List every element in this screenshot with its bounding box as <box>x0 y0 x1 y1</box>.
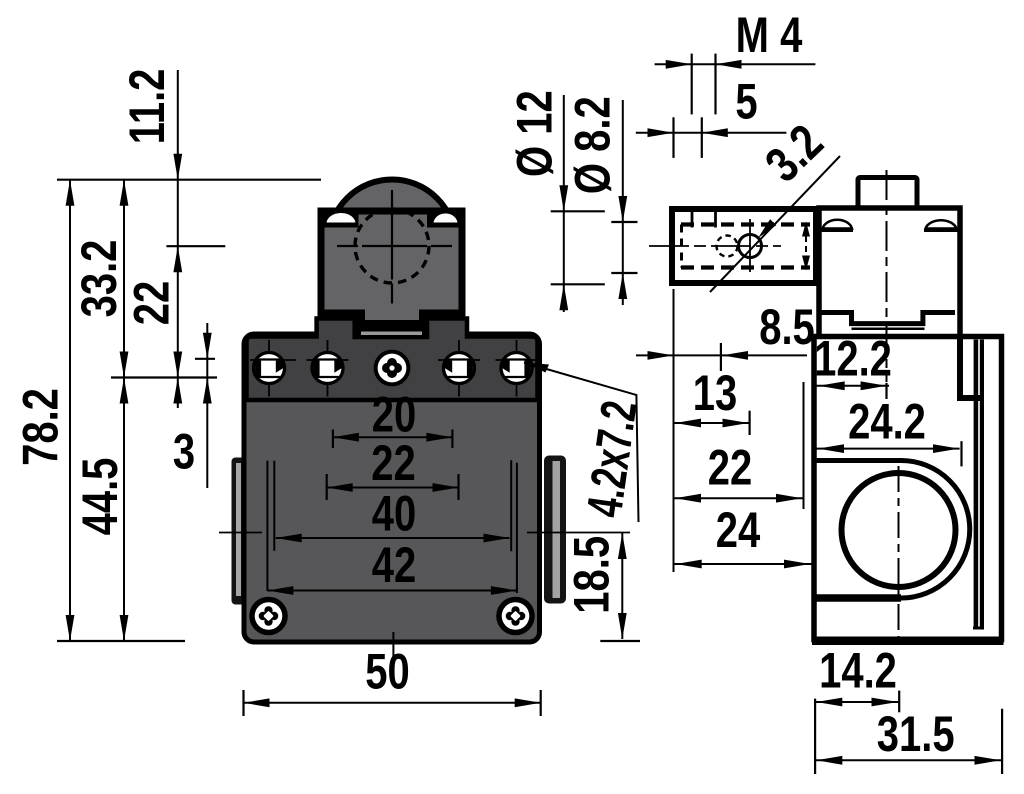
svg-text:50: 50 <box>365 643 409 699</box>
arm hidden hole dashed top <box>681 222 810 226</box>
roller centerline <box>898 466 900 648</box>
svg-text:42: 42 <box>372 537 416 593</box>
arm hidden hole dashed bottom <box>681 265 810 269</box>
svg-text:33.2: 33.2 <box>71 240 127 318</box>
dim 11.2/22 line <box>177 70 179 408</box>
extension tick bottom left <box>57 640 185 642</box>
svg-text:14.2: 14.2 <box>819 642 897 698</box>
lower body <box>814 337 1002 640</box>
side clip arc left <box>823 220 852 229</box>
head corner black insert right <box>427 209 466 228</box>
extension tick plunger center <box>166 245 225 247</box>
head bottom step <box>819 313 956 324</box>
terminal screw T1 <box>250 340 296 397</box>
inner dia 8.2 arrows <box>805 226 807 266</box>
head centerline horizontal <box>337 245 452 247</box>
plunger dashed circle <box>355 209 429 283</box>
svg-text:44.5: 44.5 <box>72 458 128 536</box>
upper body right edge extension <box>960 337 983 399</box>
dim 3 line <box>206 323 208 488</box>
lever arm <box>672 209 816 283</box>
bottom center tick <box>392 632 394 660</box>
hole crosshair horizontal <box>649 245 781 247</box>
lower body bottom thick edge <box>812 637 1004 646</box>
svg-text:Ø 8.2: Ø 8.2 <box>564 96 620 194</box>
roller housing arc <box>901 461 970 599</box>
bottom-right screw <box>496 597 535 636</box>
terminal screw T5 <box>496 340 538 397</box>
svg-text:78.2: 78.2 <box>12 388 68 466</box>
dim dia 12 <box>563 95 565 312</box>
upper body centerline <box>886 170 888 382</box>
side clip arc right <box>926 220 957 228</box>
svg-text:3: 3 <box>173 423 195 479</box>
terminal screw T2 <box>307 340 349 397</box>
M4 hole marks on arm top <box>691 211 694 228</box>
arm hidden hole dashed left <box>680 225 683 268</box>
roller circle <box>842 473 956 587</box>
svg-text:31.5: 31.5 <box>877 706 955 762</box>
white clip arc right <box>433 213 459 224</box>
right centerline <box>527 532 630 534</box>
svg-text:24.2: 24.2 <box>848 393 926 449</box>
svg-text:18.5: 18.5 <box>563 536 619 614</box>
svg-text:22: 22 <box>708 439 752 495</box>
roller housing top line <box>816 458 901 463</box>
head dome <box>329 180 456 307</box>
terminal screw T4 <box>438 340 480 397</box>
terminal ground screw T3 <box>374 350 411 387</box>
extension tick screw line <box>111 376 217 378</box>
terminal band <box>247 319 538 401</box>
bottom screws <box>249 597 535 636</box>
leader 4.2x7.2 <box>524 363 549 373</box>
dim M4 <box>655 63 816 65</box>
M4 hole circle <box>739 235 762 258</box>
svg-text:11.2: 11.2 <box>119 69 175 145</box>
neck gap light stripe <box>361 332 422 336</box>
right conduit tab <box>544 456 566 604</box>
cover seam lines <box>974 340 979 629</box>
svg-text:12.2: 12.2 <box>814 330 892 386</box>
svg-text:Ø 12: Ø 12 <box>506 90 562 177</box>
neck notch black backing <box>356 316 427 339</box>
bottom-left screw <box>249 597 288 636</box>
svg-text:24: 24 <box>716 502 760 558</box>
dim 5 <box>636 132 787 134</box>
dim 33.2/44.5 line <box>123 180 125 641</box>
left conduit tab <box>232 458 246 605</box>
svg-text:40: 40 <box>372 485 416 541</box>
svg-text:M 4: M 4 <box>736 7 803 63</box>
head centerline vertical <box>391 190 393 304</box>
leader 3.2 <box>710 156 840 292</box>
main reference line <box>673 289 675 572</box>
upper body fill <box>819 208 960 337</box>
white clip arc left <box>326 212 357 224</box>
head block with bottom tab <box>321 211 462 324</box>
dim 78.2 line <box>69 180 71 641</box>
thread dashed circle <box>717 236 738 257</box>
left centerline <box>219 532 262 534</box>
plunger <box>858 178 917 209</box>
roller housing bottom line <box>816 594 901 602</box>
svg-text:13: 13 <box>693 365 737 421</box>
svg-text:5: 5 <box>735 73 757 129</box>
svg-text:22: 22 <box>123 281 179 325</box>
svg-text:8.5: 8.5 <box>759 299 815 355</box>
upper body outline <box>819 208 960 337</box>
dim dia 8.2 <box>622 100 624 305</box>
svg-text:22: 22 <box>371 435 415 491</box>
extension tick slot top <box>195 358 215 360</box>
hole crosshair vertical <box>749 219 751 272</box>
switch body <box>244 334 540 642</box>
extension line top (head top) <box>57 179 321 181</box>
head corner black insert left <box>318 209 359 228</box>
